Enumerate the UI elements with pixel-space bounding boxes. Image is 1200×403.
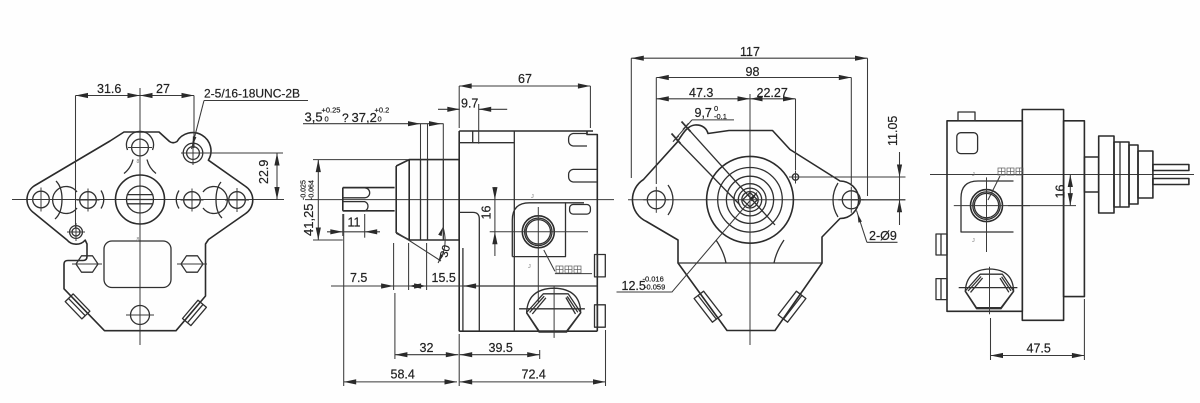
svg-text:47.5: 47.5 bbox=[1027, 342, 1051, 356]
view3 flange face edge line bbox=[678, 262, 822, 264]
view2 top step detail bbox=[472, 131, 474, 143]
view4 top-left rounded tab bbox=[957, 133, 978, 154]
view1 right flange-ear bolt hole bbox=[229, 192, 246, 209]
svg-text:+0.25: +0.25 bbox=[322, 106, 341, 115]
view4 shaft step 3 bbox=[1114, 142, 1129, 207]
svg-text:41,25: 41,25 bbox=[301, 203, 316, 236]
svg-text:-0.025: -0.025 bbox=[301, 180, 308, 200]
view2 port boss top line right bbox=[566, 202, 585, 204]
view4 mid housing block bbox=[1022, 110, 1063, 321]
view1 waist fillet left hole to boss bbox=[101, 191, 104, 209]
view1 bottom-right mounting pad bbox=[183, 300, 207, 325]
view1 top bolt hole boss bbox=[127, 131, 154, 150]
view4 plug horizontal line bbox=[959, 287, 1018, 289]
view2 side port inner circle bbox=[526, 220, 550, 244]
view2 port label leader bbox=[544, 250, 555, 271]
view1 top bolt hole bbox=[132, 139, 149, 156]
view2 rear top tab 2 bbox=[569, 169, 598, 182]
view2 gear housing front face bbox=[458, 131, 460, 331]
svg-text:J: J bbox=[972, 238, 975, 244]
view1 port recess rounded rectangle bbox=[104, 241, 171, 288]
view4 shaft step 6 bbox=[1138, 151, 1153, 198]
svg-text:7.5: 7.5 bbox=[350, 271, 367, 285]
view1 right body bolt hole bbox=[184, 192, 201, 209]
view3 right ear bolt hole bbox=[842, 191, 860, 209]
view2 rear cover right edge bbox=[587, 131, 597, 331]
view2 plug hexagon bbox=[527, 294, 581, 331]
view2 body bottom edge bbox=[459, 330, 597, 332]
dim 22.9 vertical bbox=[205, 152, 283, 154]
view1 vertical centerline bbox=[139, 88, 141, 345]
view4 port outer circle bbox=[971, 190, 1003, 222]
view3 key slot line lower bbox=[676, 139, 740, 205]
view1 left body bolt hole boss bbox=[53, 187, 77, 214]
view1 waist fillet right of top hole bbox=[147, 160, 156, 174]
view3 concentric circle r12 bbox=[738, 188, 761, 211]
view2 rear right thin tab bbox=[570, 205, 591, 215]
svg-text:15.5: 15.5 bbox=[432, 271, 456, 285]
view4 horizontal centerline bbox=[930, 174, 1194, 176]
view1 bottom-left mounting pad bbox=[65, 294, 90, 319]
view2 side port mid circle bbox=[525, 218, 552, 245]
svg-text:32: 32 bbox=[420, 341, 434, 355]
view2 plug horizontal line bbox=[519, 308, 585, 310]
view4 port boss pad bbox=[961, 181, 1014, 232]
view4 front flange plate bbox=[1064, 121, 1085, 297]
view4 plug chamfer line left inner bbox=[971, 278, 983, 292]
view1 left body bolt hole bbox=[80, 192, 97, 209]
svg-text:8: 8 bbox=[137, 159, 140, 165]
svg-text:2-Ø9: 2-Ø9 bbox=[869, 229, 897, 243]
view2 bearing bore contour bbox=[459, 212, 479, 331]
view3 bottom-left mounting pad bbox=[694, 291, 722, 322]
view1 inner contour left ear bbox=[55, 181, 62, 219]
view2 flange step line bbox=[442, 160, 444, 240]
view4 plug centerline bbox=[989, 267, 991, 315]
view1 shaft bore circle bbox=[127, 186, 154, 213]
view3 left ear inner arc bbox=[668, 185, 673, 215]
view2 rear bolt head upper bbox=[595, 255, 606, 277]
view2 port centerline horizontal bbox=[490, 231, 588, 233]
view3 vertical centerline bbox=[749, 94, 751, 345]
view2 front face second line bbox=[462, 248, 464, 331]
svg-text:-0.064: -0.064 bbox=[309, 180, 316, 200]
svg-text:9.7: 9.7 bbox=[461, 96, 478, 110]
view2 shaft spline tooth upper bbox=[343, 188, 370, 198]
svg-text:30: 30 bbox=[438, 244, 453, 259]
view2 rear bolt head lower bbox=[595, 305, 606, 327]
view1 left hex nut bbox=[76, 256, 98, 272]
svg-text:98: 98 bbox=[746, 65, 760, 79]
svg-text:?: ? bbox=[342, 111, 349, 125]
view2 seal retainer bbox=[396, 160, 409, 240]
view4 left bolt head upper bbox=[936, 234, 947, 255]
view1 central shaft boss circle bbox=[116, 175, 165, 224]
svg-text:22.9: 22.9 bbox=[257, 160, 271, 184]
svg-text:117: 117 bbox=[740, 45, 760, 59]
view1 dowel pin hole lower-left inner bbox=[72, 228, 80, 236]
view2 horizontal centerline bbox=[305, 199, 614, 201]
view4 port label bbox=[998, 168, 1005, 175]
view2 flange mounting groove lines bbox=[420, 160, 422, 240]
view2 port label underline bbox=[555, 273, 592, 275]
view2 shaft spline tooth lower bbox=[343, 202, 368, 211]
svg-text:2-5/16-18UNC-2B: 2-5/16-18UNC-2B bbox=[204, 87, 300, 101]
view3 lower waist fillet left bbox=[716, 240, 726, 263]
view4 plug chamfer line left bbox=[968, 277, 981, 292]
view2 plug chamfer line right inner bbox=[566, 298, 576, 315]
view4 shaft spline lower bbox=[1153, 179, 1189, 185]
view4 port mid circle bbox=[973, 192, 1000, 219]
svg-text:72.4: 72.4 bbox=[522, 368, 546, 382]
view4 top small notch bbox=[958, 112, 975, 121]
view2 plug chamfer line right bbox=[567, 296, 578, 312]
svg-text:37,2: 37,2 bbox=[352, 110, 377, 125]
view3 lower waist fillet right bbox=[774, 240, 784, 263]
label 2-5/16 leader line bbox=[192, 101, 205, 150]
view2 cover parting line bbox=[464, 285, 598, 287]
view3 right ear inner arc bbox=[833, 183, 838, 217]
svg-text:0: 0 bbox=[378, 115, 382, 124]
svg-text:J: J bbox=[528, 264, 531, 270]
view1 spline lines in bore bbox=[127, 194, 153, 196]
svg-text:11: 11 bbox=[348, 216, 361, 230]
view3 body outline bbox=[632, 125, 858, 331]
svg-text:16: 16 bbox=[480, 206, 494, 220]
view4 port centerline vertical bbox=[986, 177, 988, 252]
view1 waist fillet left of top hole bbox=[124, 160, 133, 174]
view4 plug chamfer line right bbox=[1002, 277, 1011, 291]
svg-text:J: J bbox=[972, 172, 975, 178]
dim 31.6 and 27 dimension line bbox=[76, 95, 195, 97]
view2 side port outer circle bbox=[522, 216, 554, 248]
view1 right body bolt hole boss bbox=[203, 187, 227, 214]
view1 horizontal centerline bbox=[12, 199, 284, 201]
view4 plug chamfer line right inner bbox=[1000, 278, 1009, 292]
view2 plug centerline bbox=[553, 286, 555, 338]
svg-text:8: 8 bbox=[137, 237, 140, 243]
view3 left ear bolt hole bbox=[647, 191, 665, 209]
view4 shaft step 5 bbox=[1129, 145, 1138, 204]
view3 key slot line upper bbox=[686, 127, 775, 226]
svg-text:16: 16 bbox=[1054, 185, 1068, 199]
view1 threaded hole 2-5/16 inner ring bbox=[187, 147, 200, 160]
svg-text:58.4: 58.4 bbox=[391, 368, 415, 382]
view1 inner contour right ear bbox=[216, 182, 222, 218]
view2 plug chamfer line left bbox=[530, 296, 545, 312]
view3 spline profile diamond bbox=[743, 193, 758, 207]
view1 threaded hole 2-5/16 outer ring bbox=[183, 143, 203, 163]
view2 plug chamfer line left inner bbox=[532, 298, 546, 314]
view4 port label leader bbox=[988, 176, 1000, 200]
view4 port centerline horizontal bbox=[954, 205, 1030, 207]
svg-text:39.5: 39.5 bbox=[489, 341, 513, 355]
view3 horizontal centerline bbox=[628, 199, 905, 201]
svg-text:9,7: 9,7 bbox=[695, 106, 712, 120]
svg-text:0: 0 bbox=[325, 115, 329, 124]
view4 shaft step 1 seal bbox=[1084, 157, 1098, 192]
view2 splined shaft outline bbox=[343, 188, 395, 211]
view3 concentric circle r32 bbox=[718, 168, 783, 233]
view3 vent hole bbox=[792, 174, 798, 180]
view3 bottom-right mounting pad bbox=[778, 291, 806, 322]
view4 shaft spline upper bbox=[1153, 165, 1189, 171]
view4 port inner circle bbox=[974, 193, 998, 217]
view1 right hex nut bbox=[181, 256, 203, 272]
view2 housing/cover joint bbox=[513, 131, 515, 331]
view3 concentric circle r16 bbox=[734, 184, 766, 216]
svg-text:J: J bbox=[531, 194, 534, 200]
view4 plug hexagon bbox=[965, 274, 1013, 308]
view1 waist fillet right hole to boss bbox=[176, 191, 179, 209]
view4 left bolt head lower bbox=[936, 279, 947, 300]
view1 bottom hole bbox=[131, 306, 150, 325]
view2 body top edge bbox=[459, 130, 593, 132]
view1 dowel pin hole lower-left outer bbox=[70, 226, 83, 239]
view3 shaft bore bbox=[742, 192, 758, 208]
view2 side port boss pad bbox=[512, 203, 565, 257]
svg-text:11.05: 11.05 bbox=[886, 116, 900, 146]
view2 front flange block bbox=[409, 160, 459, 240]
view2 port centerline vertical bbox=[537, 207, 539, 302]
svg-text:+0.2: +0.2 bbox=[375, 106, 390, 115]
svg-text:67: 67 bbox=[518, 72, 532, 86]
view1 left flange-ear bolt hole bbox=[33, 191, 50, 208]
view2 rear top tab 1 bbox=[569, 134, 587, 147]
svg-text:27: 27 bbox=[156, 82, 170, 96]
svg-text:47.3: 47.3 bbox=[689, 86, 713, 100]
svg-text:-0.059: -0.059 bbox=[644, 283, 665, 292]
svg-text:3,5: 3,5 bbox=[305, 110, 323, 125]
view2 bottom hex plug boss outline bbox=[527, 288, 581, 332]
view4 rear cover block bbox=[947, 121, 1022, 311]
view4 bottom hex plug boss outline bbox=[965, 269, 1013, 309]
view2 port label text bbox=[556, 266, 563, 273]
view1 body outline bbox=[27, 132, 253, 331]
view3 concentric circle r24 bbox=[726, 176, 773, 223]
view4 shaft step 2 bearing bbox=[1099, 136, 1114, 213]
view3 concentric circle r43 spigot bbox=[707, 156, 794, 243]
dim 30 degree angle view2 bbox=[396, 232, 441, 261]
svg-text:31.6: 31.6 bbox=[97, 82, 121, 96]
